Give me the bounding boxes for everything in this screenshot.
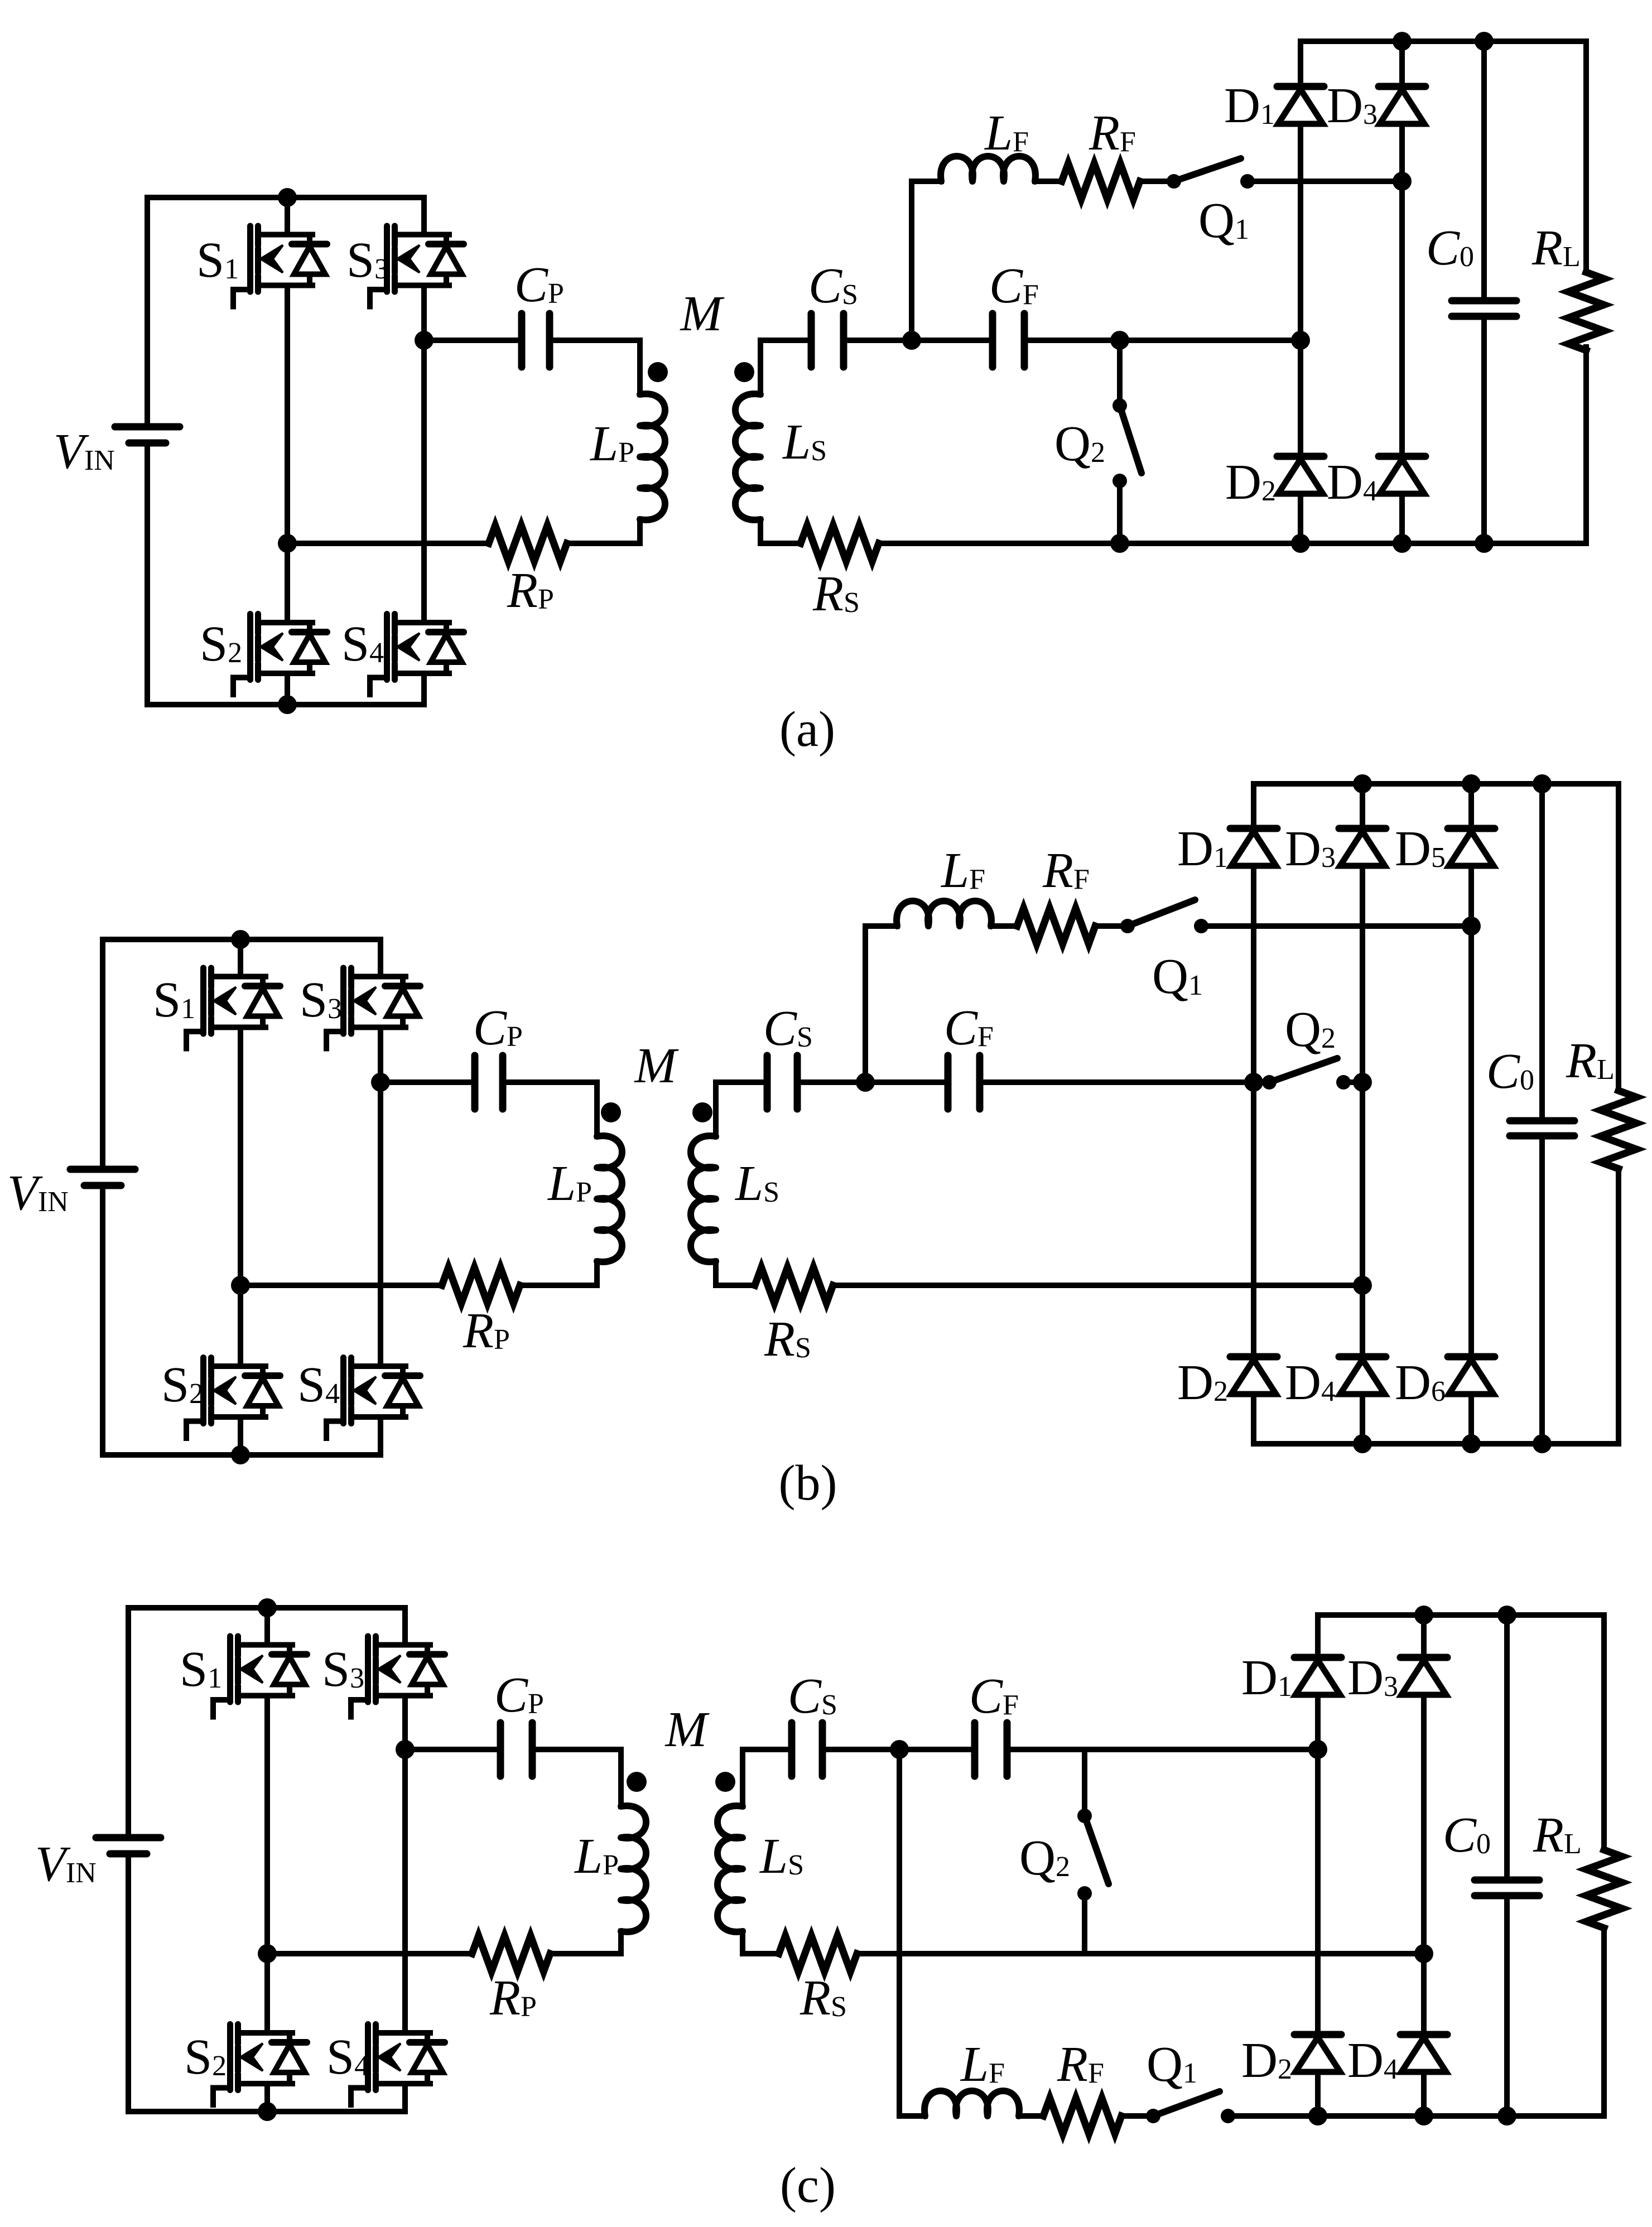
wire S4 drain leg [421,340,427,623]
node bottom rail (b) [231,1445,250,1464]
node top rail C0 (c) [1497,1606,1516,1625]
wire junction down to LF (c) [899,1749,925,2116]
transistor S1 [233,226,327,307]
wire D6 anode to bottom rail (b) [1468,1394,1474,1444]
wire CS to junction (c) [826,1747,971,1752]
node bridge midpoint (c) [258,1944,277,1963]
wire LF to RF [1035,179,1062,184]
wire top rail (b) [103,937,381,942]
transistor S3 (c) [351,1636,445,1717]
node top rail / S1 drain [278,188,297,207]
wire C0 leg upper (c) [1504,1615,1510,1880]
wire RL leg lower (c) [1601,1928,1607,2116]
diode D3 (b) [1339,825,1386,832]
polarity dot LS (c) [715,1772,735,1792]
diode D2 (b) [1230,1353,1277,1361]
svg-text:CS: CS [788,1669,837,1724]
transistor S2 (b) [186,1358,280,1439]
wire LP to RP (c) [618,1931,624,1954]
node C0 bottom rail [1475,534,1494,553]
wire D2 anode to bottom rail [1298,494,1303,543]
wire D2 anode to bottom rail (c) [1315,2072,1321,2116]
capacitor CF (c) [971,1723,979,1776]
wire S3 drain leg (b) [378,939,383,977]
wire D3 cathode leg [1399,41,1405,86]
svg-text:LS: LS [759,1829,804,1884]
diode D1 [1277,83,1324,90]
node bottom rail (c) [258,2102,277,2121]
transistor S2 [233,614,327,695]
wire LS bottom corner to RS [760,519,801,543]
inductor LP [640,394,665,520]
transistor S4 [370,614,464,695]
wire rectifier bottom rail (b) [1254,1441,1619,1447]
wire D4 anode to bottom rail (b) [1360,1394,1365,1444]
resistor RF [1062,163,1140,199]
resistor RL (c) [1586,1850,1622,1928]
svg-text:S1: S1 [196,233,239,288]
resistor RS (b) [755,1267,833,1303]
wire LS bottom to RS (b) [716,1261,755,1285]
wire LS top corner (c) [743,1749,788,1806]
wire S3 drain leg (c) [402,1608,408,1645]
wire CP to LP (b) [506,1082,597,1136]
svg-text:D4: D4 [1327,455,1378,510]
wire S1 drain leg [285,197,290,235]
transistor S4 (b) [326,1358,420,1439]
capacitor C0 (c) [1475,1877,1539,1884]
diode D1 (c) [1294,1654,1341,1661]
polarity dot LP [648,362,668,382]
wire CF to rectifier D1 leg [1028,338,1301,343]
wire RP to LP corner (c) [550,1951,621,1956]
wire S3 source to CP node [421,286,427,341]
polarity dot LS [734,362,754,382]
svg-text:LF: LF [960,2037,1005,2092]
wire rectifier top rail (b) [1254,781,1619,787]
svg-text:LS: LS [782,414,827,470]
diode D5 (b) [1448,825,1495,832]
switch Q2 [1112,398,1127,413]
svg-text:S4: S4 [326,2030,369,2085]
wire C0 leg upper (b) [1539,784,1545,1121]
resistor RP [489,526,567,561]
transistor S2 (c) [213,2024,307,2105]
wire D3 anode to Q1 node [1399,124,1405,181]
svg-text:RF: RF [1042,843,1090,898]
node CP output (c) [396,1740,415,1759]
battery VIN (b) [100,939,105,1169]
wire D3 cathode leg (b) [1360,784,1365,828]
node CF output at D1 leg (c) [1308,1740,1327,1759]
polarity dot LP (b) [601,1102,621,1122]
svg-text:S3: S3 [322,1642,364,1697]
wire RP to LP corner (b) [520,1283,597,1288]
node top rail (c) [258,1598,277,1617]
svg-text:D6: D6 [1395,1355,1446,1410]
wire D5 leg to D6 (b) [1468,926,1474,1357]
capacitor CS (c) [788,1723,796,1776]
transistor S4 (c) [351,2024,445,2105]
node Q2 tap on CF wire [1110,331,1129,350]
svg-text:RL: RL [1566,1033,1615,1088]
wire S4 source leg [421,673,427,705]
wire D3 anode to RS node (c) [1421,1695,1427,1954]
wire C0 leg lower (b) [1539,1136,1545,1444]
diode D6 (b) [1448,1353,1495,1361]
wire S1 source to midpoint [285,286,290,544]
node top rail D5 (b) [1462,774,1481,793]
wire D4 anode to bottom rail (c) [1421,2072,1427,2116]
node CF output at D1 leg [1291,331,1310,350]
wire S2 leg (c) [264,1954,270,2033]
diode D3 [1379,83,1425,90]
resistor RP (c) [472,1936,550,1971]
diode D4 [1379,453,1425,460]
wire S4 source leg (b) [378,1417,383,1455]
node Q2 at bottom rail [1110,534,1129,553]
wire RF to Q1 (c) [1121,2113,1153,2119]
transistor S1 (b) [186,968,280,1049]
wire rectifier top rail (c) [1318,1612,1604,1618]
inductor LP (c) [621,1806,646,1932]
svg-text:RS: RS [764,1312,811,1367]
resistor RL [1568,272,1604,350]
svg-text:M: M [680,286,725,341]
wire RL leg lower (b) [1616,1169,1621,1444]
resistor RL (b) [1601,1091,1636,1169]
wire D3 cathode leg (c) [1421,1615,1427,1657]
wire S4 drain leg (c) [402,1749,408,2033]
svg-text:D5: D5 [1395,821,1446,876]
wire S4 source leg (c) [402,2084,408,2112]
svg-text:CP: CP [494,1667,544,1723]
svg-text:LP: LP [547,1156,592,1211]
capacitor CS [808,314,815,367]
wire bottom rail (a) [147,702,424,707]
svg-text:CF: CF [989,258,1039,314]
svg-text:VIN: VIN [54,424,115,479]
svg-text:D2: D2 [1225,455,1276,510]
wire C0 leg lower [1481,316,1487,543]
node top rail D3 [1393,32,1412,51]
wire LP to RP [637,519,643,543]
wire S3 source to CP node (c) [402,1696,408,1750]
svg-text:D1: D1 [1241,1650,1292,1705]
wire S1 source to midpoint (c) [264,1696,270,1954]
svg-text:M: M [664,1702,710,1757]
svg-text:RP: RP [463,1303,510,1358]
svg-text:C0: C0 [1443,1807,1491,1863]
node bridge midpoint (b) [231,1276,250,1295]
capacitor CF [989,314,996,367]
wire Q1 to D5 leg (b) [1201,923,1471,929]
node bridge midpoint left [278,534,297,553]
inductor LF (c) [924,2091,1019,2116]
switch Q1 [1167,174,1181,189]
svg-text:Q2: Q2 [1054,416,1105,471]
svg-text:S2: S2 [161,1357,204,1413]
wire S2 source leg (b) [238,1417,243,1455]
wire S2 source leg (c) [264,2084,270,2112]
battery VIN plates (b) [70,1166,135,1173]
svg-text:CS: CS [763,1001,813,1056]
wire Q2 lower [1117,481,1123,543]
wire S2 leg [285,543,290,623]
wire S4 drain leg (b) [378,1082,383,1366]
wire RL leg lower [1583,347,1589,543]
svg-text:S4: S4 [341,616,384,672]
svg-text:D3: D3 [1347,1650,1398,1705]
svg-text:RF: RF [1057,2037,1104,2092]
wire CP to LP (c) [536,1749,621,1806]
wire junction up to LF (b) [865,926,897,1082]
svg-text:S3: S3 [346,233,389,288]
wire to CP (c) [405,1747,497,1752]
wire CS to CF junction [847,338,989,343]
wire Q2 lower (c) [1082,1893,1087,1954]
svg-text:Q1: Q1 [1198,193,1249,248]
wire LS top corner (b) [716,1082,761,1136]
svg-text:S2: S2 [184,2030,227,2085]
node top rail D3 (b) [1353,774,1372,793]
svg-text:(c): (c) [780,2158,836,2213]
svg-text:S3: S3 [300,972,342,1028]
svg-text:VIN: VIN [7,1165,69,1221]
svg-text:RS: RS [812,566,860,621]
node CS-CF-LF junction (b) [856,1073,875,1092]
wire to CP (b) [381,1079,471,1085]
svg-text:M: M [634,1038,680,1093]
node top rail C0 [1475,32,1494,51]
svg-text:D3: D3 [1327,78,1378,133]
wire RS to D3 leg (c) [857,1951,1424,1956]
wire D2 anode to bottom rail (b) [1251,1394,1256,1444]
wire LP to RP (b) [594,1261,600,1285]
node Q1 output at D5 leg (b) [1462,917,1481,936]
svg-text:D2: D2 [1241,2033,1292,2088]
svg-text:D1: D1 [1177,821,1228,876]
svg-text:RP: RP [489,1970,537,2026]
wire RS to D4 leg (b) [833,1283,1362,1288]
wire S1 source to midpoint (b) [238,1028,243,1286]
node top rail (b) [231,930,250,949]
wire D5 cathode leg (b) [1468,784,1474,828]
wire D1 cathode leg (b) [1251,784,1256,828]
svg-text:RS: RS [799,1970,847,2026]
inductor LS (c) [717,1806,743,1932]
wire S1 drain leg (c) [264,1608,270,1645]
svg-text:RF: RF [1089,105,1136,161]
node bottom rail D4 (c) [1414,2107,1433,2125]
wire D3 leg to D4 (b) [1360,1082,1365,1357]
svg-text:S1: S1 [180,1642,222,1697]
wire Q2 to D3 leg (b) [1343,1079,1362,1085]
svg-text:VIN: VIN [35,1836,97,1892]
switch Q1 (b) [1120,919,1135,933]
resistor RS [801,526,879,561]
wire RL leg upper (c) [1601,1615,1607,1850]
capacitor CS (b) [764,1055,771,1109]
wire Q2 upper [1117,340,1123,406]
battery VIN (c) [126,1608,131,1838]
wire midpoint to RP (b) [240,1283,442,1288]
polarity dot LP (c) [627,1772,647,1792]
wire S2 source leg [285,673,290,705]
wire D1 leg to D2 (c) [1315,1749,1321,2035]
wire D1 anode to CF node (b) [1251,866,1256,1082]
wire D1 cathode leg [1298,41,1303,86]
wire bottom rail (b) [103,1452,381,1458]
node top rail C0 (b) [1533,774,1552,793]
wire LS top corner [760,340,808,394]
wire midpoint to RP [287,541,489,546]
battery VIN [145,197,150,427]
svg-text:LP: LP [589,416,634,471]
svg-text:Q1: Q1 [1152,949,1203,1004]
svg-text:RL: RL [1533,1807,1582,1863]
svg-text:CS: CS [808,258,858,314]
wire D1 cathode leg (c) [1315,1615,1321,1657]
resistor RS (c) [779,1936,857,1971]
wire D1 leg to D2 (b) [1251,1082,1256,1357]
node CP output [415,331,434,350]
node bottom rail / S2 source [278,695,297,714]
wire D1 anode to CF node (c) [1315,1695,1321,1749]
wire LS bottom to RS (c) [743,1931,779,1954]
svg-text:CP: CP [473,1000,523,1055]
wire D4 anode to bottom rail [1399,494,1405,543]
inductor LF (b) [897,901,991,926]
svg-text:C0: C0 [1426,220,1474,276]
inductor LS (b) [691,1136,716,1262]
wire C0 leg lower (c) [1504,1896,1510,2116]
wire CF to D1 leg (b) [983,1079,1254,1085]
node bottom rail C0 (b) [1533,1434,1552,1453]
wire D3 leg to D4 (c) [1421,1954,1427,2035]
wire RF to Q1 (b) [1095,923,1128,929]
battery VIN plates [115,423,180,431]
wire C0 leg upper [1481,41,1487,301]
wire S2 leg (b) [238,1285,243,1366]
svg-text:RP: RP [507,563,554,618]
node bottom rail C0 (c) [1497,2107,1516,2125]
svg-text:S1: S1 [153,972,195,1028]
wire RF to Q1 [1140,179,1174,184]
wire LF to RF (c) [1019,2113,1043,2119]
wire D1 leg to D2 [1298,340,1303,456]
node bottom rail D4 (b) [1353,1434,1372,1453]
node bottom rail D6 (b) [1462,1434,1481,1453]
svg-text:Q2: Q2 [1285,1002,1336,1057]
wire top rail (a) [147,195,424,200]
node CF output at D1 leg (b) [1244,1073,1263,1092]
capacitor CF (b) [945,1055,952,1109]
wire LF to RF (b) [991,923,1017,929]
node D2 bottom rail [1291,534,1310,553]
transistor S3 (b) [326,968,420,1049]
node D4 bottom rail [1393,534,1412,553]
node RS at D4 leg (b) [1353,1276,1372,1295]
inductor LP (b) [597,1136,622,1262]
wire RS to output bottom rail [879,541,1586,546]
wire S1 drain leg (b) [238,939,243,977]
capacitor CP (b) [471,1055,479,1109]
svg-text:S4: S4 [297,1357,340,1413]
node CS-CF-LF junction [902,331,921,350]
node Q2 output at D3 leg (b) [1353,1073,1372,1092]
inductor LS [735,394,760,520]
capacitor CP [518,314,526,367]
wire to CP [424,338,518,343]
svg-text:C0: C0 [1486,1044,1534,1099]
wire D3 leg to D4 [1399,181,1405,456]
wire bottom rail (c) [128,2109,405,2114]
svg-text:CF: CF [944,1000,994,1055]
switch Q2 (c) [1077,1809,1092,1823]
node top rail D3 (c) [1414,1606,1433,1625]
svg-text:(a): (a) [779,702,835,757]
svg-text:LF: LF [984,105,1029,161]
svg-text:D4: D4 [1285,1355,1336,1410]
node RS at D3 leg (c) [1414,1944,1433,1963]
diode D4 (c) [1400,2031,1447,2038]
node CS-CF-LF junction (c) [890,1740,909,1759]
wire rectifier top rail [1301,38,1586,44]
inductor LF [941,156,1035,181]
wire S3 drain leg [421,197,427,235]
wire S3 source to CP node (b) [378,1028,383,1083]
capacitor C0 (b) [1510,1117,1574,1125]
diode D4 (b) [1339,1353,1386,1361]
wire junction up to LF [912,181,941,340]
svg-text:S2: S2 [200,616,242,672]
battery VIN plates (c) [96,1834,161,1842]
svg-text:LS: LS [734,1156,779,1211]
svg-text:LP: LP [574,1829,619,1884]
switch Q1 (c) [1146,2109,1160,2123]
resistor RF (c) [1043,2098,1121,2134]
transistor S1 (c) [213,1636,307,1717]
svg-text:D3: D3 [1285,821,1336,876]
svg-text:CF: CF [969,1669,1019,1724]
node CP output (b) [371,1073,390,1092]
diode D2 [1277,453,1324,460]
wire RL leg upper [1583,41,1589,272]
svg-text:Q2: Q2 [1019,1830,1070,1886]
svg-text:(b): (b) [779,1455,837,1511]
resistor RF (b) [1017,908,1095,944]
svg-text:RL: RL [1531,220,1581,276]
node bottom rail D2 (c) [1308,2107,1327,2125]
wire Q2 upper (c) [1082,1749,1087,1816]
svg-text:D1: D1 [1224,78,1275,133]
node Q1 output at D3 leg [1393,172,1412,191]
svg-text:CP: CP [514,257,564,312]
capacitor CP (c) [497,1723,504,1776]
capacitor C0 [1452,297,1516,305]
wire D1 anode to CF node [1298,124,1303,340]
svg-text:LF: LF [940,843,985,898]
wire RL leg upper (b) [1616,784,1621,1091]
diode D1 (b) [1230,825,1277,832]
diode D2 (c) [1294,2031,1341,2038]
wire Q1 to bottom rail (c) [1228,2113,1603,2119]
wire top rail (c) [128,1605,405,1611]
wire CF to D1 leg (c) [1010,1747,1318,1752]
wire CP to LP [553,340,640,394]
diode D3 (c) [1400,1654,1447,1661]
